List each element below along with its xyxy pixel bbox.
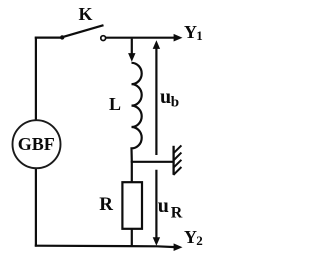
resistor R: [122, 182, 142, 229]
wire junction horizontal to ground: [131, 161, 174, 163]
switch K: [60, 25, 106, 40]
wire left vertical bottom (from GBF down to bottom wire): [35, 168, 37, 247]
voltage arrow u_b (up): [153, 40, 160, 155]
svg-text:Y: Y: [184, 227, 197, 247]
wire top horizontal right segment with arrow to Y1: [106, 34, 183, 42]
svg-text:u: u: [160, 86, 171, 108]
svg-text:R: R: [171, 205, 183, 222]
svg-text:u: u: [158, 195, 169, 217]
svg-text:K: K: [79, 4, 93, 24]
wire left vertical top (from top-left corner down to GBF): [35, 37, 37, 121]
voltage arrow u_R (down): [153, 170, 160, 246]
svg-text:Y: Y: [184, 22, 197, 42]
svg-text:b: b: [171, 94, 179, 110]
label u_R: [158, 195, 183, 222]
terminal Y2: [184, 227, 203, 248]
svg-text:GBF: GBF: [18, 134, 55, 154]
svg-text:2: 2: [196, 233, 203, 248]
terminal Y1: [184, 22, 203, 43]
generator GBF: [13, 120, 61, 168]
wire resistor to bottom: [131, 229, 133, 247]
wire bottom horizontal with arrow to Y2: [35, 243, 183, 251]
svg-text:1: 1: [196, 28, 203, 43]
label u_b: [160, 86, 179, 111]
ground (chassis): [173, 145, 181, 175]
inductor L coil: [132, 63, 142, 162]
svg-text:R: R: [99, 194, 113, 215]
wire junction down to resistor: [131, 161, 133, 182]
wire top horizontal left segment: [35, 36, 62, 38]
svg-text:L: L: [109, 94, 121, 114]
node junction arrow down into L: [128, 39, 135, 62]
